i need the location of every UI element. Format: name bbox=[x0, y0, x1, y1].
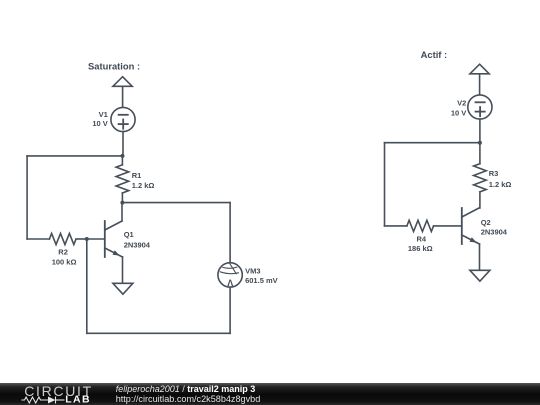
wire bottom rail bbox=[87, 332, 230, 334]
svg-text:100 kΩ: 100 kΩ bbox=[52, 257, 77, 266]
resistor R2 bbox=[49, 233, 76, 244]
transistor Q1 bbox=[105, 203, 123, 284]
svg-text:Saturation :: Saturation : bbox=[88, 61, 140, 72]
svg-text:http://circuitlab.com/c2k58b4z: http://circuitlab.com/c2k58b4z8gvbd bbox=[116, 394, 261, 404]
svg-text:1.2 kΩ: 1.2 kΩ bbox=[489, 180, 512, 189]
wire bottom rail up to VM3 bottom bbox=[229, 287, 231, 333]
wire node A to left rail bbox=[27, 155, 122, 157]
wire node B down to bottom rail bbox=[86, 239, 88, 333]
voltmeter VM3 bbox=[218, 263, 242, 287]
svg-text:VM3: VM3 bbox=[245, 266, 260, 275]
voltage source V2 bbox=[468, 95, 492, 119]
ground (Q1 emitter) bbox=[113, 283, 133, 294]
wire left rail to R4 left lead bbox=[385, 225, 407, 227]
svg-text:1.2 kΩ: 1.2 kΩ bbox=[132, 181, 155, 190]
svg-text:Q1: Q1 bbox=[124, 230, 134, 239]
svg-text:Q2: Q2 bbox=[481, 218, 491, 227]
resistor R3 bbox=[474, 164, 487, 192]
voltage source V1 bbox=[111, 107, 135, 131]
svg-text:2N3904: 2N3904 bbox=[124, 241, 151, 250]
svg-text:R1: R1 bbox=[132, 171, 142, 180]
wire VM3 top down to meter bbox=[229, 203, 231, 263]
svg-text:feliperocha2001 / travail2 man: feliperocha2001 / travail2 manip 3 bbox=[116, 384, 256, 394]
CircuitLab logo resistor + diode squiggle bbox=[22, 397, 65, 404]
wire node B to Q1 base bbox=[87, 238, 105, 240]
labels: left circuit bbox=[52, 61, 278, 289]
wire V2 bottom to node D bbox=[479, 119, 481, 143]
svg-text:186 kΩ: 186 kΩ bbox=[408, 244, 433, 253]
wire node D down to R3 top lead bbox=[479, 143, 481, 164]
wire node C to VM3 top bbox=[122, 202, 230, 204]
power supply arrow (top of V2) bbox=[470, 64, 489, 95]
wire node A down to R1 top lead bbox=[121, 156, 123, 165]
svg-text:V2: V2 bbox=[457, 99, 466, 108]
resistor R4 bbox=[407, 220, 434, 231]
node A (V1 / R1 junction) bbox=[121, 154, 125, 158]
node B (R2 / base / bottom rail junction) bbox=[85, 237, 89, 241]
wire R4 right lead to Q2 base bbox=[434, 225, 462, 227]
svg-text:R2: R2 bbox=[58, 248, 68, 257]
svg-text:10 V: 10 V bbox=[451, 109, 466, 118]
transistor Q2 bbox=[462, 208, 480, 270]
ground (Q2 emitter) bbox=[470, 270, 490, 281]
wire node D to left rail bbox=[385, 142, 480, 144]
svg-text:Λ: Λ bbox=[227, 278, 233, 288]
wire left rail down to R4 bbox=[384, 143, 386, 226]
labels: right circuit bbox=[408, 49, 512, 253]
resistor R1 bbox=[116, 165, 129, 193]
power supply arrow (top of V1) bbox=[113, 77, 132, 108]
svg-text:R3: R3 bbox=[489, 169, 499, 178]
wire left rail down to R2 bbox=[26, 156, 28, 239]
svg-text:10 V: 10 V bbox=[92, 119, 107, 128]
svg-text:V1: V1 bbox=[99, 110, 108, 119]
wire left rail to R2 left lead bbox=[27, 238, 49, 240]
svg-text:601.5 mV: 601.5 mV bbox=[245, 276, 278, 285]
wire V1 bottom to node A bbox=[122, 132, 124, 156]
wire R3 bottom lead to Q2 collector bbox=[479, 192, 481, 208]
wire R2 right lead to node B bbox=[76, 238, 87, 240]
svg-text:LAB: LAB bbox=[65, 394, 91, 405]
node D (V2 / R3 / R4 junction) bbox=[478, 141, 482, 145]
svg-text:2N3904: 2N3904 bbox=[481, 228, 508, 237]
wire R1 bottom lead to node C bbox=[121, 193, 123, 203]
svg-text:R4: R4 bbox=[417, 235, 427, 244]
svg-text:Actif :: Actif : bbox=[421, 49, 448, 60]
node C (R1 / Q1 collector / VM3 junction) bbox=[120, 201, 124, 205]
